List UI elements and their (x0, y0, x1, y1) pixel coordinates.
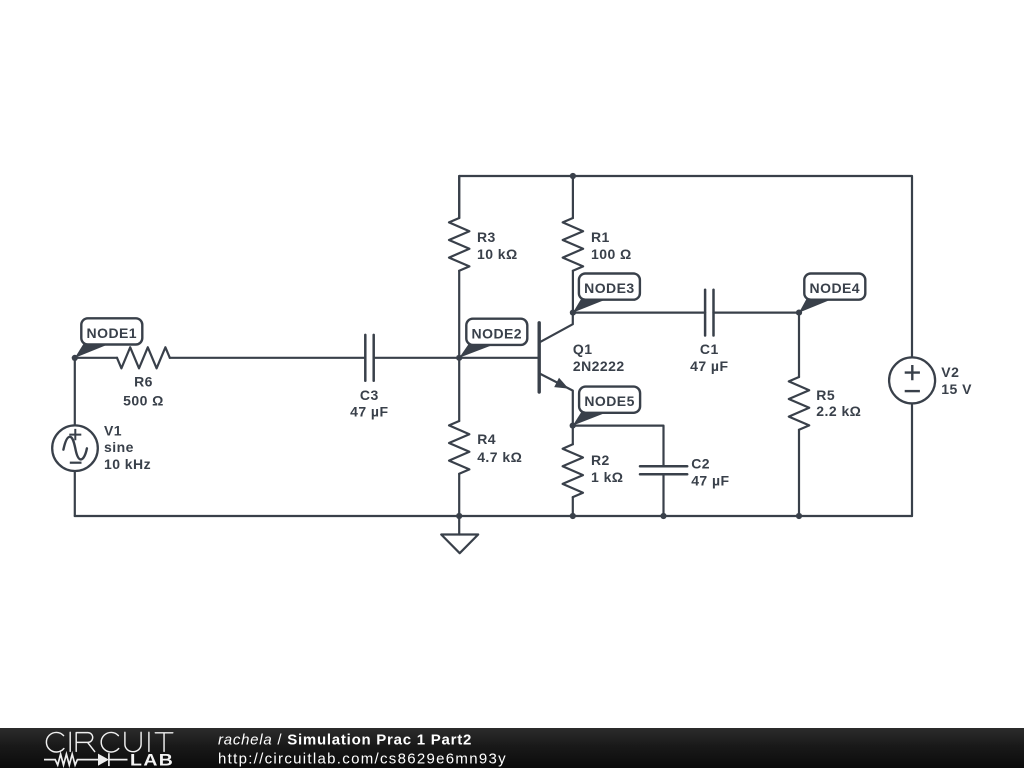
wire NODE3 to C1 (573, 312, 705, 314)
svg-text:rachela / Simulation Prac 1 Pa: rachela / Simulation Prac 1 Part2 (218, 731, 472, 748)
transistor Q1 base bar (538, 323, 541, 392)
svg-text:NODE3: NODE3 (584, 280, 634, 296)
bottom rail junction dot R2 (570, 513, 576, 519)
transistor Q1 emitter diagonal (540, 374, 573, 426)
V2 plus sign (905, 365, 920, 380)
wire NODE4 down to R5 (798, 313, 800, 377)
wire C3 to Q1 base through NODE2 (374, 357, 538, 359)
svg-text:R6: R6 (134, 374, 153, 390)
svg-text:sine: sine (104, 439, 134, 455)
node label NODE1 pointer wedge (75, 344, 107, 358)
footer logo resistor+diode symbol (44, 753, 128, 766)
svg-text:LAB: LAB (130, 751, 174, 768)
svg-text:500 Ω: 500 Ω (123, 393, 164, 409)
svg-text:R1: R1 (591, 229, 610, 245)
svg-text:47 µF: 47 µF (350, 403, 388, 419)
wire C2 bottom to rail (662, 474, 664, 516)
node label NODE3 pointer wedge (573, 299, 604, 312)
svg-text:R5: R5 (816, 387, 835, 403)
node label NODE2 pointer wedge (459, 345, 491, 358)
node label NODE4 pointer wedge (799, 299, 829, 312)
wire NODE5 down to R2 (572, 426, 574, 445)
node label NODE1 box (81, 318, 142, 344)
svg-text:10 kHz: 10 kHz (104, 456, 151, 472)
bottom rail junction dot R5 (796, 513, 802, 519)
wire right rail lower (V2 bottom to bottom rail) (911, 403, 913, 516)
wire R2 bottom to rail (572, 497, 574, 516)
svg-text:NODE5: NODE5 (584, 393, 634, 409)
ground stub wire (458, 516, 460, 535)
resistor R1 zigzag (563, 218, 583, 271)
resistor R6 zigzag (117, 347, 170, 368)
capacitor C2 plates (640, 466, 687, 474)
svg-text:NODE4: NODE4 (810, 280, 860, 296)
top rail junction dot (570, 173, 576, 179)
node NODE2 junction dot (456, 355, 462, 361)
node NODE4 junction dot (796, 310, 802, 316)
svg-text:4.7 kΩ: 4.7 kΩ (477, 449, 522, 465)
wire V1 top lead (74, 358, 76, 426)
svg-text:R4: R4 (477, 431, 496, 447)
node label NODE4 box (804, 274, 865, 300)
svg-text:C2: C2 (691, 455, 710, 471)
wire node1 to R6 (75, 357, 117, 359)
svg-text:V1: V1 (104, 423, 122, 439)
resistor R4 zigzag (449, 421, 469, 474)
node label NODE3 box (579, 274, 640, 300)
resistor R2 zigzag (563, 444, 583, 497)
wire NODE2 down to R4 (458, 358, 460, 421)
wire top rail (459, 176, 912, 357)
svg-text:10 kΩ: 10 kΩ (477, 246, 518, 262)
node label NODE5 box (579, 387, 640, 413)
svg-text:15 V: 15 V (941, 381, 972, 397)
wire R3 top lead from rail (458, 176, 460, 218)
V1 plus sign (69, 429, 81, 440)
bottom rail junction dot C2 (660, 513, 666, 519)
wire R1 bottom to NODE3 (572, 271, 574, 313)
svg-text:NODE2: NODE2 (472, 325, 522, 341)
V1 sine symbol (63, 437, 87, 460)
node label NODE2 box (466, 319, 527, 345)
svg-text:R3: R3 (477, 229, 496, 245)
resistor R5 zigzag (789, 377, 809, 430)
wire R6 to C3 (170, 357, 365, 359)
svg-text:1 kΩ: 1 kΩ (591, 469, 624, 485)
wire R5 bottom to rail (798, 430, 800, 516)
wire NODE5 to C2 (573, 426, 664, 467)
footer logo CIRCUIT lettering (thin stroke paths) (46, 732, 172, 752)
wire V1 bottom lead (74, 471, 76, 516)
node NODE5 junction dot (570, 423, 576, 429)
wire R1 top lead (572, 176, 574, 218)
node NODE3 junction dot (570, 310, 576, 316)
ground triangle (441, 535, 478, 554)
V2 minus sign (905, 390, 920, 392)
wire R3 bottom to NODE2 (458, 271, 460, 358)
wire C1 to NODE4 (714, 312, 800, 314)
transistor Q1 collector diagonal (540, 313, 573, 343)
bottom rail junction dot R4/ground (456, 513, 462, 519)
svg-text:2N2222: 2N2222 (573, 358, 625, 374)
svg-text:NODE1: NODE1 (87, 325, 137, 341)
svg-text:http://circuitlab.com/cs8629e6: http://circuitlab.com/cs8629e6mn93y (218, 751, 507, 768)
svg-text:47 µF: 47 µF (690, 358, 728, 374)
svg-text:100 Ω: 100 Ω (591, 246, 632, 262)
resistor R3 zigzag (449, 218, 469, 271)
svg-text:V2: V2 (941, 364, 959, 380)
voltage source V1 circle (52, 425, 98, 471)
svg-text:Q1: Q1 (573, 341, 593, 357)
node label NODE5 pointer wedge (573, 412, 604, 425)
V1 minus sign (70, 462, 82, 464)
voltage source V2 circle (889, 357, 935, 403)
transistor Q1 emitter arrow (554, 378, 568, 389)
svg-text:C3: C3 (360, 387, 379, 403)
wire R4 bottom to rail (458, 474, 460, 516)
wire bottom rail (75, 515, 912, 517)
node NODE1 junction dot (72, 355, 78, 361)
svg-text:C1: C1 (700, 341, 719, 357)
svg-text:2.2 kΩ: 2.2 kΩ (816, 403, 861, 419)
svg-text:R2: R2 (591, 452, 610, 468)
capacitor C3 plates (365, 335, 373, 381)
capacitor C1 plates (705, 290, 713, 336)
svg-text:47 µF: 47 µF (691, 473, 729, 489)
